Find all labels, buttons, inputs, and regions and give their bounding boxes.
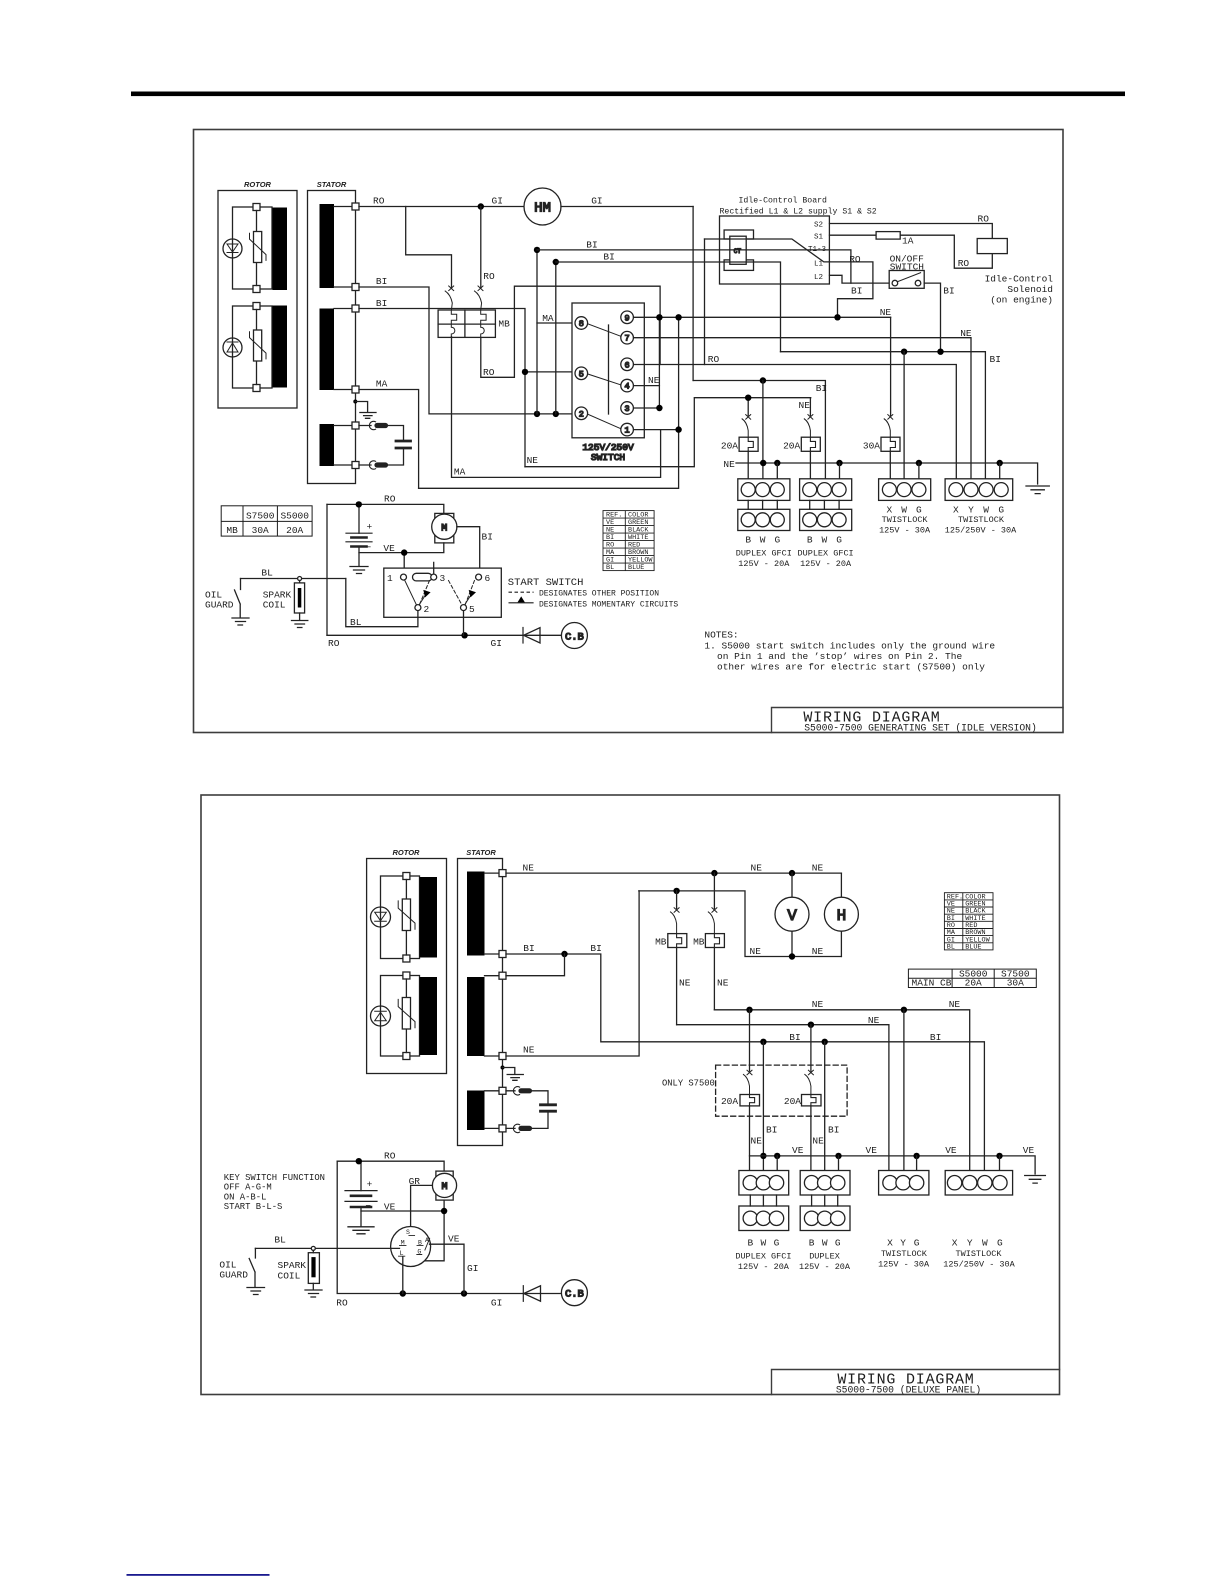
wire NE stator#2 riser	[506, 891, 639, 1056]
svg-text:NE: NE	[812, 946, 824, 957]
wire S1 to fuse and solenoid	[830, 235, 993, 268]
svg-text:RO: RO	[336, 1297, 348, 1308]
top rule bar	[131, 92, 1125, 97]
condenser leads with bullet connectors	[359, 421, 404, 469]
svg-text:GI: GI	[492, 196, 503, 207]
svg-text:S5000: S5000	[280, 510, 309, 521]
start switch pin circles	[401, 574, 407, 580]
svg-text:30A: 30A	[863, 441, 880, 452]
svg-text:G: G	[836, 534, 842, 545]
svg-text:RO: RO	[483, 367, 495, 378]
pin 8	[575, 317, 588, 330]
rotor winding box A	[381, 876, 420, 959]
node pin5 tap	[522, 369, 528, 375]
NE bus	[736, 463, 1038, 484]
wire MA to switch pin 8	[537, 322, 575, 324]
svg-text:G: G	[997, 1238, 1003, 1249]
breaker blades and x marks	[445, 291, 481, 310]
svg-text:NE: NE	[648, 375, 660, 386]
wire pin9 NE line	[634, 316, 891, 318]
svg-text:RO: RO	[328, 638, 340, 649]
capacitor C2	[541, 1105, 556, 1111]
svg-text:BI: BI	[851, 286, 862, 297]
svg-text:3: 3	[625, 404, 630, 414]
terminal	[253, 303, 260, 310]
receptacle duplex #2b	[800, 1171, 850, 1231]
svg-text:VE: VE	[792, 1145, 804, 1156]
pin 2	[575, 407, 588, 420]
svg-text:8: 8	[579, 319, 584, 329]
connector spark coil top	[298, 577, 302, 581]
winding taps	[334, 207, 352, 466]
svg-text:+: +	[367, 1179, 373, 1190]
svg-text:VE: VE	[383, 543, 395, 554]
frame top diagram	[194, 130, 1064, 733]
diode D1	[223, 239, 242, 258]
svg-text:NE: NE	[812, 1136, 824, 1147]
svg-text:G: G	[774, 1238, 780, 1249]
wire MB right pole down	[481, 286, 660, 377]
svg-text:BL: BL	[350, 617, 362, 628]
breaker MB#1 (bottom diag)	[668, 891, 687, 1025]
fuse F1 1A	[876, 232, 900, 240]
svg-text:BLUE: BLUE	[628, 564, 644, 572]
svg-text:W: W	[760, 534, 766, 545]
terminal	[499, 1053, 506, 1060]
svg-text:Idle-Control Board: Idle-Control Board	[739, 195, 828, 205]
wire NE top	[506, 872, 841, 874]
svg-text:NE: NE	[750, 946, 762, 957]
rotor winding box B	[381, 976, 420, 1057]
svg-text:CT: CT	[734, 248, 742, 255]
svg-text:9: 9	[625, 313, 630, 323]
pin 7	[621, 331, 634, 344]
node	[789, 953, 795, 959]
svg-text:ROTOR: ROTOR	[244, 180, 272, 189]
svg-text:20A: 20A	[965, 978, 982, 989]
wire BL to key switch	[255, 1247, 399, 1249]
svg-text:A: A	[425, 1237, 429, 1244]
receptacle twistlock 125/250V-30A b	[945, 1171, 1012, 1196]
svg-text:W: W	[761, 1238, 767, 1249]
svg-text:L: L	[400, 1250, 404, 1257]
node VE/W crossing	[760, 1153, 766, 1159]
wire twistlock Y feed	[903, 1010, 905, 1176]
node BI riser 2	[553, 411, 559, 417]
svg-text:NE: NE	[523, 1045, 535, 1056]
svg-text:Y: Y	[967, 1238, 973, 1249]
svg-text:S1: S1	[814, 234, 824, 242]
node	[356, 1158, 362, 1164]
spark coil 2	[305, 1250, 322, 1297]
svg-text:MA: MA	[376, 379, 388, 390]
svg-text:RO: RO	[958, 258, 970, 269]
wire duplex W feeds	[763, 1042, 824, 1176]
oil guard 2	[247, 1248, 265, 1294]
svg-text:GI: GI	[467, 1263, 478, 1274]
terminal	[403, 873, 410, 880]
svg-text:NE: NE	[812, 863, 824, 874]
wire 30A down to twistlock X	[889, 451, 891, 482]
svg-text:L2: L2	[814, 274, 823, 282]
terminal	[253, 286, 260, 293]
connector spark coil 2	[311, 1246, 315, 1250]
svg-text:RO: RO	[384, 1151, 396, 1162]
wire BI#1 stator to switch pin2	[359, 287, 575, 414]
svg-text:NE: NE	[679, 978, 691, 989]
svg-text:20A: 20A	[783, 441, 800, 452]
receptacle duplex GFCI #1b	[739, 1171, 789, 1231]
svg-text:MB: MB	[226, 525, 238, 536]
svg-text:BI: BI	[930, 1032, 941, 1043]
node	[760, 377, 766, 383]
rotor winding bar A	[420, 877, 438, 958]
svg-text:G: G	[417, 1249, 421, 1256]
stator winding bar A	[320, 204, 335, 288]
wire MA from stator	[359, 390, 419, 489]
idle control board box	[720, 216, 830, 284]
wire L1 path	[830, 262, 873, 317]
wire varistor RV4 leads	[405, 979, 407, 1053]
svg-text:G: G	[774, 534, 780, 545]
wire BL to oil guard	[241, 578, 346, 580]
svg-text:STATOR: STATOR	[317, 180, 347, 189]
switch ON/OFF	[889, 271, 924, 289]
breaker MB#2 (bottom diag)	[705, 873, 724, 1010]
nodes	[746, 1007, 752, 1013]
wire BI#2 stator to NE line	[359, 309, 525, 467]
terminal	[253, 385, 260, 392]
breaker 20A#2	[801, 398, 820, 483]
title block top diagram	[772, 708, 1064, 733]
svg-text:BI: BI	[789, 1032, 800, 1043]
svg-text:NE: NE	[799, 400, 811, 411]
wire RO start circuit top	[327, 504, 444, 513]
svg-text:GI: GI	[591, 196, 602, 207]
svg-text:SWITCH: SWITCH	[591, 452, 625, 463]
svg-text:+: +	[367, 522, 373, 533]
terminal	[253, 204, 260, 211]
svg-text:30A: 30A	[1007, 978, 1024, 989]
receptacle duplex GFCI #1	[738, 479, 790, 531]
wire varistor RV3 leads	[405, 880, 407, 956]
terminal	[403, 1053, 410, 1060]
wire CT top / T1-3 diagonal to L1	[705, 239, 830, 262]
nodes on BI line	[760, 1039, 766, 1045]
wire pin4 stub	[634, 385, 660, 387]
rotor winding W2 box	[233, 306, 273, 388]
wire pin1 line	[634, 429, 679, 431]
nodes	[400, 1290, 406, 1296]
pin 6	[621, 358, 634, 371]
svg-text:L1: L1	[814, 261, 824, 269]
wire 30A feed from pin9 line	[890, 317, 892, 415]
wire varistor RV2 leads	[256, 310, 258, 385]
diode CR1	[523, 628, 561, 644]
svg-text:DESIGNATES OTHER POSITION: DESIGNATES OTHER POSITION	[539, 590, 659, 599]
voltmeter V	[775, 873, 809, 956]
svg-text:DUPLEX GFCI: DUPLEX GFCI	[798, 549, 854, 559]
rotor box R1	[218, 191, 297, 409]
svg-text:TWISTLOCK: TWISTLOCK	[882, 515, 929, 525]
wire RO stator to HM	[359, 206, 524, 208]
svg-text:RO: RO	[384, 494, 396, 505]
nodes	[711, 870, 717, 876]
nodes VE bus	[774, 1153, 780, 1159]
node	[441, 1208, 447, 1214]
svg-text:ONLY S7500: ONLY S7500	[662, 1079, 715, 1089]
svg-text:SWITCH: SWITCH	[890, 262, 924, 273]
wire G-pin feeds from bus	[777, 463, 999, 483]
frame bottom diagram	[201, 795, 1060, 1395]
title block bottom diagram	[772, 1370, 1060, 1395]
rotor winding W1 bar	[273, 208, 288, 291]
svg-text:BI: BI	[828, 1125, 839, 1136]
svg-text:Rectified L1 & L2 supply S1 &: Rectified L1 & L2 supply S1 & S2	[720, 207, 877, 217]
wire pin3 entry stub	[433, 562, 435, 573]
wire riser pin9-pin1-start switch	[419, 317, 679, 488]
MB table	[221, 506, 312, 536]
svg-text:S5000-7500 GENERATING SET (IDL: S5000-7500 GENERATING SET (IDLE VERSION)	[804, 723, 1037, 734]
svg-text:H: H	[837, 907, 847, 925]
breaker MB (2-pole)	[438, 310, 495, 337]
svg-text:BI: BI	[990, 354, 1001, 365]
receptacle duplex GFCI #2	[800, 479, 852, 531]
svg-text:other wires are for electric s: other wires are for electric start (S750…	[717, 661, 985, 672]
svg-text:125V - 30A: 125V - 30A	[878, 1259, 930, 1269]
svg-text:3: 3	[440, 573, 446, 584]
svg-text:GI: GI	[491, 1297, 502, 1308]
svg-text:X: X	[952, 1238, 958, 1249]
svg-text:NE: NE	[868, 1015, 880, 1026]
spark coil	[292, 581, 308, 628]
svg-text:START SWITCH: START SWITCH	[508, 577, 584, 589]
node	[834, 314, 840, 320]
svg-text:W: W	[822, 1238, 828, 1249]
svg-text:Y: Y	[900, 1238, 906, 1249]
wire G pin feeds	[777, 1156, 999, 1176]
wire NE meter bottom loop	[639, 891, 842, 957]
terminal	[499, 951, 506, 958]
terminal	[499, 1125, 506, 1132]
svg-text:20A: 20A	[721, 1096, 738, 1107]
node	[901, 349, 907, 355]
svg-text:KEY SWITCH FUNCTION: KEY SWITCH FUNCTION	[224, 1173, 325, 1183]
svg-text:MA: MA	[542, 313, 554, 324]
svg-text:B: B	[418, 1240, 422, 1247]
svg-text:125/250V - 30A: 125/250V - 30A	[945, 525, 1017, 535]
wire CT bottom line	[556, 262, 781, 352]
svg-text:VE: VE	[448, 1234, 460, 1245]
svg-text:BI: BI	[816, 383, 827, 394]
svg-text:DUPLEX GFCI: DUPLEX GFCI	[736, 549, 792, 559]
svg-text:M: M	[441, 1182, 447, 1193]
svg-text:S2: S2	[814, 222, 823, 230]
breaker 30A	[881, 415, 900, 452]
receptacle twistlock 125V-30A	[879, 479, 931, 501]
battery B1	[346, 504, 372, 573]
wire GI horizontal	[693, 381, 825, 483]
svg-text:C.B: C.B	[565, 1289, 584, 1301]
ground at NE bus right	[1026, 486, 1049, 494]
svg-text:B: B	[809, 1238, 815, 1249]
node	[461, 632, 467, 638]
svg-text:MB: MB	[655, 937, 667, 948]
svg-text:1A: 1A	[902, 236, 914, 247]
svg-text:BI: BI	[523, 943, 534, 954]
svg-text:−: −	[365, 1201, 371, 1212]
wire BI mid line	[781, 352, 986, 483]
receptacle twistlock 125V-30A b	[879, 1171, 929, 1196]
switch 125V/250V box	[572, 303, 644, 438]
terminal	[499, 870, 506, 877]
svg-text:BL: BL	[261, 568, 273, 579]
wire MB left pole down to MA line	[451, 337, 453, 478]
wire pin6 RO line	[634, 365, 957, 483]
dashed box ONLY S7500	[716, 1065, 848, 1116]
svg-text:OFF A-G-M: OFF A-G-M	[224, 1183, 272, 1193]
svg-text:125V - 20A: 125V - 20A	[799, 1262, 851, 1272]
wire RO left down and bottom	[337, 1161, 523, 1293]
REF/COLOR table top	[603, 511, 654, 571]
wire RO left down	[326, 504, 328, 635]
svg-text:G: G	[914, 1238, 920, 1249]
svg-text:GUARD: GUARD	[205, 600, 234, 611]
momentary triangles	[423, 590, 430, 598]
stator bar C	[467, 1091, 485, 1131]
svg-text:RO: RO	[978, 213, 990, 224]
node BI riser 1	[534, 411, 540, 417]
wire NE line 2	[677, 1025, 889, 1176]
wire pin 5 tap	[525, 371, 575, 373]
terminal	[352, 386, 359, 393]
svg-text:6: 6	[485, 573, 491, 584]
terminal	[352, 462, 359, 469]
wire key switch bottom (L terminal)	[402, 1257, 404, 1294]
node	[675, 314, 681, 320]
CT symbol	[724, 230, 753, 270]
terminal	[352, 422, 359, 429]
switch mech link	[608, 325, 610, 414]
svg-text:W: W	[982, 1238, 988, 1249]
svg-text:MB: MB	[693, 937, 705, 948]
node	[656, 314, 662, 320]
svg-text:125/250V - 30A: 125/250V - 30A	[943, 1259, 1015, 1269]
breaker 20A#2b	[802, 1025, 822, 1176]
wire pin7 line	[634, 338, 971, 483]
wire BI line upper-right to ON/OFF	[537, 250, 889, 283]
pin 4	[621, 379, 634, 392]
svg-text:DESIGNATES MOMENTARY CIRCUITS: DESIGNATES MOMENTARY CIRCUITS	[539, 600, 678, 609]
receptacle twistlock 125/250V-30A	[945, 479, 1013, 501]
wire GI down from HM	[692, 207, 694, 381]
stator box S1	[308, 191, 356, 484]
wire riser duplex1 W	[762, 381, 764, 483]
rotor box R2	[367, 859, 447, 1074]
svg-text:RO: RO	[483, 271, 495, 282]
diode D3	[371, 907, 391, 927]
svg-text:NE: NE	[960, 328, 972, 339]
svg-text:STATOR: STATOR	[466, 848, 496, 857]
breaker 20A#1b	[740, 1010, 760, 1176]
svg-text:BI: BI	[603, 252, 614, 263]
battery B2	[345, 1161, 377, 1234]
rotor winding W1 box	[233, 207, 273, 289]
pin 3	[621, 402, 634, 415]
node top of risers	[534, 247, 540, 253]
condenser leads with bullets	[506, 1087, 548, 1133]
svg-text:TWISTLOCK: TWISTLOCK	[956, 1249, 1003, 1259]
stator winding bar B	[320, 309, 335, 391]
svg-text:B: B	[747, 1238, 753, 1249]
breaker C.B circle 2	[561, 1280, 587, 1306]
svg-text:RO: RO	[373, 196, 385, 207]
svg-text:BLUE: BLUE	[965, 943, 981, 951]
capacitor C1	[396, 441, 411, 448]
svg-text:G: G	[835, 1238, 841, 1249]
svg-text:NOTES:: NOTES:	[704, 630, 738, 641]
svg-text:GUARD: GUARD	[219, 1270, 248, 1281]
wire riser twistlock W	[903, 352, 905, 483]
wire M bottom lead down to G terminal	[419, 1200, 444, 1261]
start switch blades	[405, 580, 417, 605]
svg-text:TWISTLOCK: TWISTLOCK	[881, 1249, 928, 1259]
svg-text:MB: MB	[498, 319, 510, 330]
varistor RV1	[250, 232, 267, 263]
varistor RV2	[250, 330, 267, 361]
wire MA bus bottom	[452, 430, 660, 478]
svg-text:Solenoid: Solenoid	[1007, 284, 1053, 295]
rotor winding bar B	[420, 977, 438, 1055]
oil guard switch	[232, 579, 249, 626]
svg-text:NE: NE	[717, 978, 729, 989]
svg-text:NE: NE	[751, 1136, 763, 1147]
MAIN CB table	[908, 969, 1036, 987]
diode CR2	[523, 1286, 561, 1302]
svg-text:20A: 20A	[721, 441, 738, 452]
svg-text:NE: NE	[751, 863, 763, 874]
legend sample lines	[509, 592, 534, 603]
wire S2 to solenoid	[830, 224, 993, 239]
varistor RV4	[398, 998, 415, 1030]
svg-text:NE: NE	[880, 307, 892, 318]
svg-text:1: 1	[625, 426, 630, 436]
svg-text:6: 6	[625, 360, 630, 370]
svg-text:M: M	[441, 524, 447, 535]
wire VE battery to pin1	[359, 553, 404, 574]
svg-text:125V - 30A: 125V - 30A	[879, 525, 931, 535]
svg-text:5: 5	[469, 604, 475, 615]
svg-text:VE: VE	[384, 1202, 396, 1213]
wire pin5 down	[463, 611, 465, 636]
wire RO bottom to CB	[327, 634, 523, 636]
start switch box	[384, 568, 502, 617]
wire pin3 stub	[634, 407, 660, 409]
svg-text:B: B	[807, 534, 813, 545]
winding taps	[485, 873, 500, 1128]
stator ground	[501, 1066, 524, 1081]
svg-text:20A: 20A	[784, 1096, 801, 1107]
footer blue line	[127, 1574, 270, 1576]
rotor winding W2 bar	[273, 306, 288, 388]
svg-text:S: S	[406, 1229, 410, 1236]
wire GI from HM to idle board	[561, 206, 693, 208]
svg-text:BL: BL	[274, 1235, 286, 1246]
svg-text:on Pin 1 and the ’stop’ wires: on Pin 1 and the ’stop’ wires on Pin 2. …	[717, 651, 962, 662]
terminal	[352, 203, 359, 210]
svg-text:2: 2	[579, 409, 584, 419]
wire MB right pole riser	[480, 207, 482, 289]
